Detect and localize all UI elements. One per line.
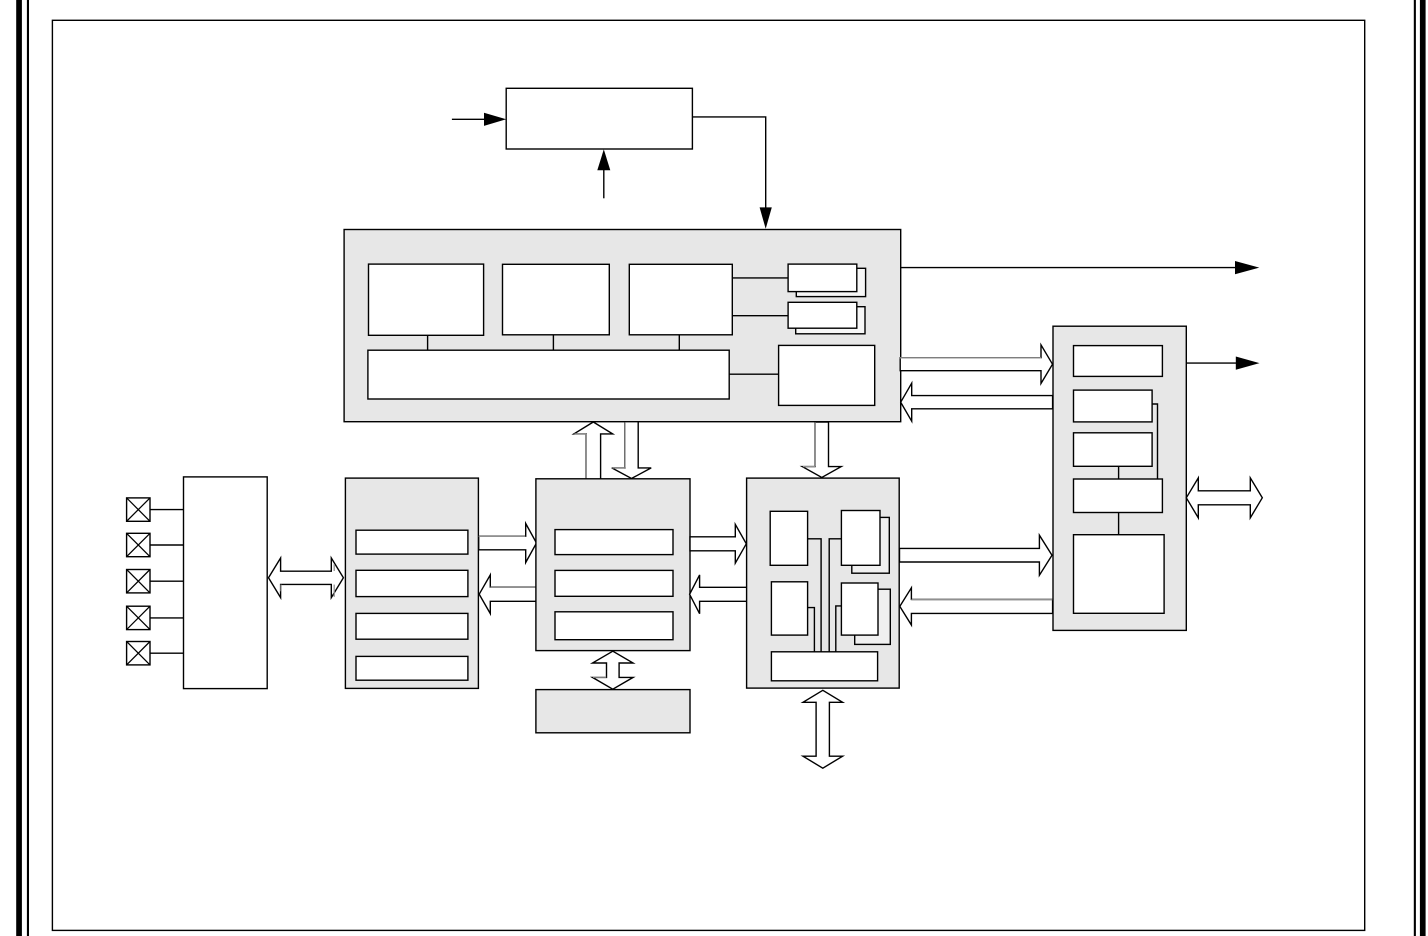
arrowhead up into top box [597,149,610,170]
stacked box S2 back [796,307,865,334]
right block box R2 [1074,390,1153,422]
block arrow block3 to block5 (double vertical) [593,651,634,689]
arrowhead down into main block [760,207,772,228]
block arrow right block to block4 [900,588,1053,625]
gray edge arrow block3-2 [490,586,537,588]
bus box W (wide) [368,350,729,399]
block4 stack TR back [852,517,890,573]
wire TR to bus [829,539,841,652]
gray edge on arrow main to right block [899,357,1041,359]
gray edge down-arrow2 shaft [814,422,816,466]
main block background [344,230,901,422]
block arrow block4 to block3 [690,575,747,614]
gray edge up-arrow shaft [585,434,587,479]
wire long output from main block [901,267,1236,269]
block4 stack BR front [841,583,878,635]
sub-box A1 [369,264,484,335]
block arrow right block to main [901,383,1053,421]
block4 stack TR front [841,511,880,566]
arrowhead input to top box [484,113,506,126]
block4 box BL [771,582,807,635]
gray edge down-arrow shaft [624,422,626,467]
gray tick double arrow right notch upper [333,564,335,571]
block4 stack BR back [855,589,891,644]
block arrow below block4 (double vertical) [803,690,843,768]
input pad X5 [127,642,150,665]
block arrow block3 to block2 [479,575,537,614]
wire pad X5 to port box [150,652,184,654]
right block box R4 [1074,479,1163,513]
wire A3 down to bus box [678,335,680,350]
sub-box B [779,345,875,405]
gray tick lower wing of double vertical arrow [593,676,606,678]
gray tick double arrow right notch lower [333,585,335,597]
wire input to top box [452,118,485,120]
wire A3 to stack S2 [732,315,795,317]
top box U1 [506,88,692,149]
input pad X2 [127,533,150,556]
port box (tall) [184,477,268,689]
block3 register 2 [555,570,673,596]
wire R2 to R4 [1152,404,1157,479]
block arrow up from RAM block [574,422,613,480]
block4 background [747,478,900,688]
block arrow block3 to block4 [690,524,746,563]
input pad X1 [127,498,150,521]
wire R4 to R5 [1118,513,1120,535]
wire BL to bus [808,608,815,652]
sub-box A3 [629,264,732,335]
gray edge down-arrow2 head [803,466,815,468]
gray edge arrow rightblock-4 [911,599,1053,601]
gray edge down-arrow head [612,467,625,469]
wire A3 to stack S1 [732,277,788,279]
wire bus box to box B [729,373,778,375]
block2 register 4 [356,656,468,680]
wire A2 down to bus box [552,335,554,350]
sub-box A2 [503,264,610,335]
page border thick bar right edge [1420,0,1426,936]
block arrow block4 to right block [900,535,1053,575]
right block box R3 [1074,433,1153,467]
block4 bottom bar [771,652,877,681]
block2 register 3 [356,613,468,639]
wire TL to bus [808,539,822,652]
page border thick bar left edge [16,0,22,936]
block3 register 1 [555,530,673,555]
page border thin bar left edge [27,0,29,936]
wire output from right block [1186,362,1236,364]
block arrow down to IO block [802,422,841,478]
wire pad X4 to port box [150,617,184,619]
gray tick double arrow left notch [280,585,282,592]
stacked box S2 front [788,302,857,328]
wire A1 down to bus box [427,335,429,350]
block2 background [345,478,478,688]
block3 background [536,479,690,651]
right block box R5 [1074,535,1165,614]
input pad X4 [127,606,150,629]
wire below top box [603,170,605,199]
right block background [1053,326,1186,630]
stacked box S1 front [788,264,857,292]
wire pad X2 to port box [150,544,184,546]
gray edge arrow block2-3 [479,535,526,537]
wire top box to main block [692,117,765,208]
block2 register 2 [356,570,468,596]
wire pad X3 to port box [150,580,184,582]
block3 register 3 [555,612,673,640]
block arrow block2 to block3 [479,524,537,563]
wire BR to bus [836,606,842,652]
gray edge up-arrow head [574,433,586,435]
block4 box TL [770,511,807,565]
block arrow main to right block [900,345,1052,384]
arrowhead long output [1235,261,1259,274]
input pad X3 [127,570,150,593]
block arrow port box to block2 (double) [269,558,344,598]
stacked box S1 back [796,268,865,296]
wire R3 to R4 [1118,466,1120,479]
block2 register 1 [356,530,468,554]
block5 background [536,690,690,733]
page border thin bar right edge [1414,0,1416,936]
block arrow right block external (double) [1186,478,1262,518]
wire pad X1 to port box [150,509,184,511]
right block box R1 [1074,346,1163,377]
arrowhead output right block [1236,357,1260,370]
block arrow down to RAM block [612,422,651,479]
